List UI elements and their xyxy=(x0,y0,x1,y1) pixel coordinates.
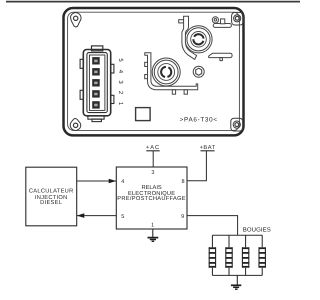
arm bracket right xyxy=(209,53,233,60)
screw hole top-right xyxy=(232,12,244,25)
ground symbol (bougies) xyxy=(231,285,241,289)
terminal stud upper (B+) xyxy=(185,26,212,53)
wire pin 5 to calculateur with arrow xyxy=(77,215,117,217)
screw hole bottom-right xyxy=(231,118,243,131)
inspection window square xyxy=(136,108,151,121)
connector J1 shell xyxy=(80,46,114,122)
clip detail top-right xyxy=(212,17,231,28)
terminal lower clamp bracket xyxy=(145,53,198,95)
wire +AC to pin 3 xyxy=(152,151,154,167)
glow plug R3 xyxy=(242,235,249,275)
wire calculateur to pin 4 with arrow xyxy=(77,180,117,182)
svg-text:+BAT: +BAT xyxy=(200,145,216,151)
svg-text:RELAIS: RELAIS xyxy=(141,185,161,191)
svg-text:CALCULATEUR: CALCULATEUR xyxy=(29,189,74,195)
wire pin 1 to ground xyxy=(152,229,154,237)
screw hole bottom-left xyxy=(70,119,81,131)
svg-text:BOUGIES: BOUGIES xyxy=(243,226,271,233)
wire +BAT to pin 8 xyxy=(187,151,206,181)
svg-text:DIESEL: DIESEL xyxy=(40,200,62,206)
svg-text:1: 1 xyxy=(151,223,154,229)
svg-text:5: 5 xyxy=(121,214,124,220)
glow plug R2 xyxy=(225,235,232,275)
svg-text:PRE/POSTCHAUFFAGE: PRE/POSTCHAUFFAGE xyxy=(117,195,186,202)
page top border line xyxy=(6,1,300,3)
glow plug R4 xyxy=(259,235,266,275)
glow plug R1 xyxy=(209,235,216,275)
svg-text:8: 8 xyxy=(181,179,184,185)
terminal upper clamp bracket xyxy=(179,16,197,59)
terminal stud lower (B-) xyxy=(152,58,180,86)
wire bus to ground xyxy=(236,275,238,285)
svg-text:3: 3 xyxy=(151,170,154,176)
ground symbol (relay) xyxy=(148,238,159,242)
hex washer xyxy=(193,66,204,77)
connector pin cavities xyxy=(92,57,100,109)
screw hole top-left xyxy=(71,13,82,27)
wire pin 9 to bougies bus xyxy=(187,216,238,236)
connector face xyxy=(87,53,107,113)
svg-text:>PA6-T30<: >PA6-T30< xyxy=(180,117,218,124)
svg-text:+AC: +AC xyxy=(146,145,160,151)
svg-text:9: 9 xyxy=(181,214,184,220)
bougies bottom bus xyxy=(212,274,262,276)
block U2: calculateur injection diesel xyxy=(26,167,77,226)
relay module inner shell line xyxy=(68,12,240,130)
block U1: relais electronique pre/postchauffage xyxy=(116,167,187,229)
svg-text:4: 4 xyxy=(121,179,124,185)
bougies top bus xyxy=(212,234,262,236)
relay module case outline xyxy=(64,8,244,135)
